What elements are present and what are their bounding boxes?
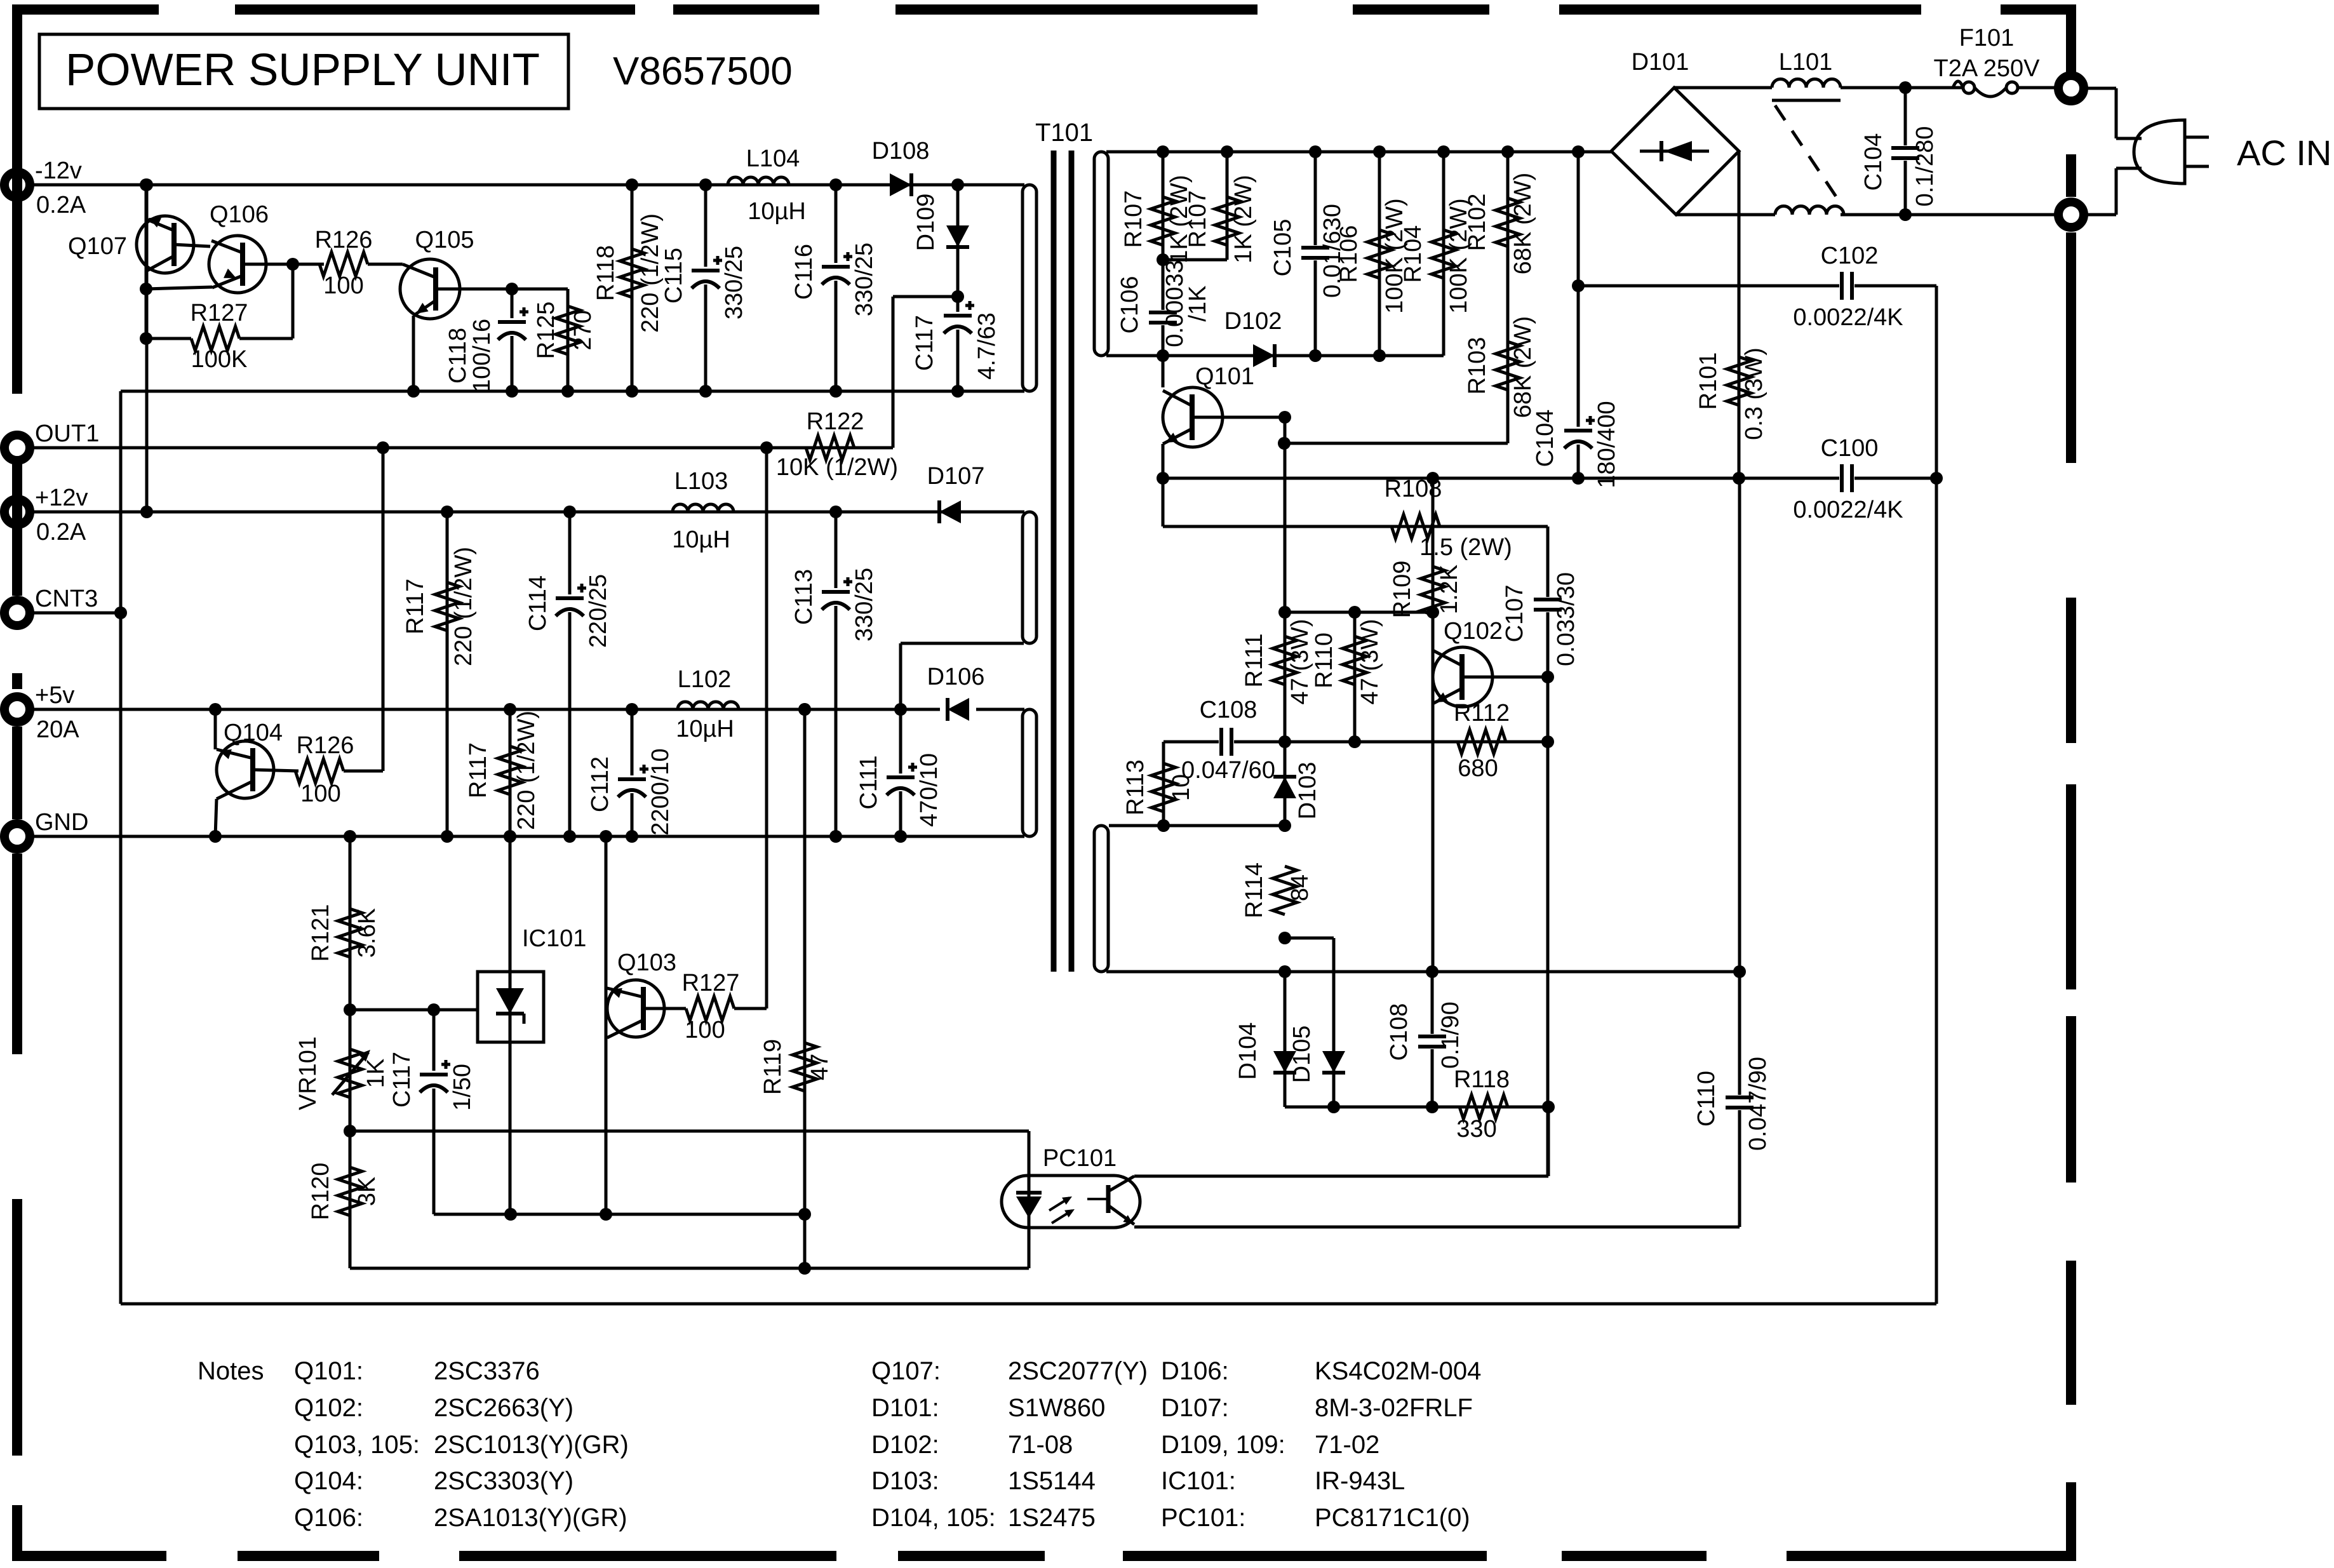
svg-text:330/25: 330/25 (851, 243, 878, 316)
svg-text:R102: R102 (1464, 194, 1491, 251)
svg-text:C110: C110 (1693, 1071, 1720, 1127)
svg-text:R103: R103 (1464, 337, 1491, 395)
svg-text:R126: R126 (315, 227, 373, 253)
svg-text:100K: 100K (191, 346, 248, 373)
svg-text:0.0022/4K: 0.0022/4K (1793, 497, 1903, 523)
svg-text:Notes: Notes (198, 1357, 264, 1385)
svg-text:D105: D105 (1289, 1026, 1315, 1083)
svg-text:220 (1/2W): 220 (1/2W) (450, 547, 477, 666)
svg-text:T101: T101 (1035, 119, 1093, 147)
svg-text:R126: R126 (297, 732, 354, 759)
svg-text:GND: GND (35, 809, 88, 836)
svg-text:C118: C118 (445, 328, 471, 384)
svg-text:2SC2077(Y): 2SC2077(Y) (1008, 1357, 1148, 1385)
svg-text:D102:: D102: (871, 1431, 939, 1459)
svg-text:OUT1: OUT1 (35, 420, 99, 447)
svg-text:D103:: D103: (871, 1467, 939, 1495)
svg-text:2SC3376: 2SC3376 (434, 1357, 540, 1385)
svg-text:Q104: Q104 (224, 720, 283, 746)
svg-text:C114: C114 (525, 575, 551, 631)
svg-text:10µH: 10µH (672, 526, 730, 553)
svg-text:100: 100 (300, 781, 340, 807)
svg-text:10µH: 10µH (676, 716, 734, 742)
svg-text:D109: D109 (913, 194, 939, 251)
svg-text:20A: 20A (36, 716, 79, 743)
svg-text:0.1/280: 0.1/280 (1912, 126, 1938, 207)
svg-text:68K (2W): 68K (2W) (1510, 316, 1536, 418)
svg-text:220/25: 220/25 (585, 574, 612, 648)
svg-text:C113: C113 (791, 569, 817, 625)
svg-text:R107: R107 (1120, 191, 1147, 248)
svg-text:Q102:: Q102: (294, 1394, 363, 1422)
svg-text:R107: R107 (1184, 191, 1211, 248)
svg-text:L103: L103 (674, 468, 728, 495)
svg-text:2200/10: 2200/10 (647, 748, 674, 835)
svg-text:1S2475: 1S2475 (1008, 1504, 1096, 1532)
svg-text:C115: C115 (661, 248, 687, 304)
svg-text:0.3 (3W): 0.3 (3W) (1741, 347, 1767, 440)
svg-text:84: 84 (1287, 874, 1313, 901)
svg-text:R114: R114 (1241, 862, 1268, 918)
svg-text:0.033/30: 0.033/30 (1553, 572, 1579, 666)
svg-text:0.0022/4K: 0.0022/4K (1793, 304, 1903, 331)
svg-text:330/25: 330/25 (721, 246, 748, 319)
svg-text:C112: C112 (587, 756, 614, 812)
svg-text:D107: D107 (927, 463, 985, 490)
svg-text:L104: L104 (746, 145, 800, 172)
svg-text:Q103: Q103 (617, 949, 676, 976)
svg-text:-12v: -12v (35, 157, 82, 184)
svg-text:R111: R111 (1241, 633, 1268, 687)
svg-text:2SA1013(Y)(GR): 2SA1013(Y)(GR) (434, 1504, 627, 1532)
svg-text:Q101:: Q101: (294, 1357, 363, 1385)
svg-text:C104: C104 (1532, 410, 1559, 467)
svg-text:1K (2W): 1K (2W) (1230, 175, 1257, 263)
svg-text:R122: R122 (807, 408, 864, 435)
svg-text:3.6K: 3.6K (354, 908, 380, 958)
svg-text:Q107:: Q107: (871, 1357, 941, 1385)
svg-text:C117: C117 (911, 315, 938, 371)
svg-text:C108: C108 (1386, 1003, 1412, 1061)
svg-text:220 (1/2W): 220 (1/2W) (513, 711, 540, 830)
svg-text:10K (1/2W): 10K (1/2W) (776, 454, 898, 481)
svg-text:D109, 109:: D109, 109: (1161, 1431, 1285, 1459)
svg-text:D108: D108 (872, 138, 930, 164)
svg-text:Q104:: Q104: (294, 1467, 363, 1495)
svg-text:L102: L102 (678, 666, 732, 693)
svg-text:Q106: Q106 (210, 201, 269, 228)
svg-text:L101: L101 (1779, 49, 1833, 76)
svg-text:0.047/90: 0.047/90 (1745, 1057, 1771, 1151)
svg-text:KS4C02M-004: KS4C02M-004 (1315, 1357, 1481, 1385)
svg-text:PC101:: PC101: (1161, 1504, 1245, 1532)
svg-text:Q106:: Q106: (294, 1504, 363, 1532)
svg-text:Q103, 105:: Q103, 105: (294, 1431, 420, 1459)
svg-text:100: 100 (323, 272, 363, 299)
svg-text:71-02: 71-02 (1315, 1431, 1379, 1459)
svg-text:0.2A: 0.2A (36, 192, 86, 218)
svg-text:10: 10 (1168, 774, 1195, 801)
svg-text:R104: R104 (1400, 225, 1426, 283)
svg-text:C117: C117 (389, 1052, 415, 1108)
svg-text:C108: C108 (1200, 697, 1258, 723)
svg-text:R118: R118 (593, 245, 619, 301)
svg-text:470/10: 470/10 (916, 753, 942, 827)
svg-text:R127: R127 (682, 970, 740, 996)
svg-text:220 (1/2W): 220 (1/2W) (637, 213, 664, 333)
svg-text:2SC2663(Y): 2SC2663(Y) (434, 1394, 573, 1422)
svg-text:Q102: Q102 (1444, 618, 1503, 645)
svg-text:C111: C111 (855, 755, 882, 809)
svg-text:D103: D103 (1294, 762, 1321, 820)
svg-text:+5v: +5v (35, 682, 74, 709)
svg-text:S1W860: S1W860 (1008, 1394, 1105, 1422)
svg-text:R127: R127 (191, 300, 248, 326)
svg-text:1.2K: 1.2K (1436, 565, 1463, 614)
svg-text:C102: C102 (1821, 243, 1879, 269)
svg-text:CNT3: CNT3 (35, 586, 98, 612)
svg-text:IR-943L: IR-943L (1315, 1467, 1405, 1495)
svg-text:C100: C100 (1821, 435, 1879, 462)
svg-text:D106:: D106: (1161, 1357, 1229, 1385)
svg-text:2SC1013(Y)(GR): 2SC1013(Y)(GR) (434, 1431, 629, 1459)
svg-text:Q101: Q101 (1195, 363, 1254, 390)
svg-text:180/400: 180/400 (1593, 401, 1620, 488)
svg-text:F101: F101 (1959, 25, 2015, 51)
svg-text:C105: C105 (1270, 219, 1296, 277)
svg-text:R113: R113 (1122, 760, 1149, 815)
svg-text:T2A 250V: T2A 250V (1934, 55, 2041, 82)
svg-text:IC101:: IC101: (1161, 1467, 1236, 1495)
svg-text:47 (3W): 47 (3W) (1287, 619, 1313, 704)
svg-text:V8657500: V8657500 (613, 50, 793, 93)
svg-text:47: 47 (807, 1054, 833, 1080)
svg-text:D101: D101 (1632, 49, 1689, 76)
svg-text:1K: 1K (363, 1059, 389, 1088)
svg-text:C106: C106 (1117, 276, 1143, 334)
svg-text:2SC3303(Y): 2SC3303(Y) (434, 1467, 573, 1495)
svg-text:R120: R120 (307, 1163, 334, 1221)
svg-text:4.7/63: 4.7/63 (974, 312, 1000, 380)
svg-text:270: 270 (570, 310, 596, 350)
svg-text:R125: R125 (533, 302, 560, 359)
svg-text:R118: R118 (1454, 1066, 1510, 1093)
svg-text:D102: D102 (1224, 308, 1282, 335)
svg-text:IC101: IC101 (522, 925, 586, 952)
svg-text:Q105: Q105 (415, 227, 474, 253)
svg-text:3K: 3K (354, 1177, 380, 1206)
svg-text:PC8171C1(0): PC8171C1(0) (1315, 1504, 1470, 1532)
svg-text:D104, 105:: D104, 105: (871, 1504, 996, 1532)
svg-text:D106: D106 (927, 664, 985, 690)
svg-text:1S5144: 1S5144 (1008, 1467, 1096, 1495)
svg-text:100/16: 100/16 (469, 319, 495, 392)
svg-text:R117: R117 (465, 742, 492, 798)
svg-text:R101: R101 (1695, 352, 1722, 410)
svg-text:D101:: D101: (871, 1394, 939, 1422)
svg-text:+12v: +12v (35, 485, 88, 511)
svg-text:10µH: 10µH (748, 198, 806, 225)
svg-text:1/50: 1/50 (449, 1064, 476, 1111)
svg-text:8M-3-02FRLF: 8M-3-02FRLF (1315, 1394, 1473, 1422)
svg-text:R119: R119 (760, 1039, 786, 1095)
svg-text:VR101: VR101 (295, 1036, 321, 1110)
svg-text:R110: R110 (1311, 633, 1338, 688)
svg-text:71-08: 71-08 (1008, 1431, 1073, 1459)
svg-text:R121: R121 (307, 904, 334, 962)
svg-text:D107:: D107: (1161, 1394, 1229, 1422)
svg-text:R109: R109 (1389, 561, 1416, 619)
svg-text:330: 330 (1456, 1116, 1496, 1142)
svg-text:/1K: /1K (1184, 285, 1211, 321)
svg-text:R106: R106 (1336, 225, 1362, 283)
svg-text:R112: R112 (1454, 700, 1510, 727)
svg-text:C107: C107 (1501, 585, 1528, 643)
svg-text:R117: R117 (402, 579, 429, 634)
svg-text:PC101: PC101 (1043, 1145, 1117, 1172)
svg-text:AC IN: AC IN (2237, 133, 2331, 173)
svg-text:C104: C104 (1860, 133, 1887, 191)
svg-text:68K (2W): 68K (2W) (1510, 173, 1536, 274)
svg-text:100: 100 (685, 1017, 725, 1043)
svg-text:0.047/60: 0.047/60 (1181, 757, 1275, 784)
svg-text:330/25: 330/25 (851, 568, 878, 641)
svg-text:0.2A: 0.2A (36, 519, 86, 546)
svg-text:47 (3W): 47 (3W) (1357, 619, 1383, 704)
svg-text:C116: C116 (791, 244, 817, 300)
svg-text:Q107: Q107 (68, 233, 127, 260)
svg-text:0.1/90: 0.1/90 (1437, 1002, 1464, 1069)
svg-text:680: 680 (1458, 755, 1498, 782)
svg-text:POWER SUPPLY UNIT: POWER SUPPLY UNIT (65, 45, 540, 95)
svg-text:D104: D104 (1235, 1022, 1261, 1080)
